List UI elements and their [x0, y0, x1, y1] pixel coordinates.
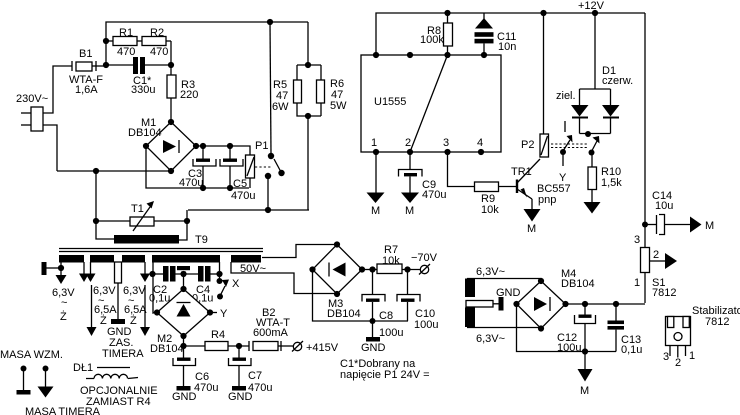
node R4 right	[236, 343, 242, 349]
svg-text:230V~: 230V~	[16, 93, 48, 105]
svg-text:U1555: U1555	[374, 96, 406, 108]
LED rail top	[580, 88, 611, 90]
switch contact fixed left	[564, 121, 566, 132]
svg-text:470u: 470u	[422, 189, 446, 201]
node M4 right	[562, 301, 568, 307]
svg-text:10k: 10k	[481, 204, 499, 216]
svg-text:10n: 10n	[498, 41, 516, 53]
node C8 top	[369, 266, 375, 272]
svg-text:T9: T9	[195, 234, 208, 246]
svg-text:2: 2	[653, 249, 659, 261]
node R7 right	[404, 266, 410, 272]
wire M3 right to R7	[362, 269, 377, 271]
svg-text:2: 2	[675, 357, 681, 369]
+12V right drop	[644, 13, 646, 225]
svg-text:7812: 7812	[705, 316, 729, 328]
thermistor T1	[96, 201, 187, 231]
svg-text:4: 4	[477, 137, 483, 149]
svg-text:+415V: +415V	[306, 342, 339, 354]
label Stabilizator 7812	[692, 305, 740, 328]
wire M2 bottom to R4 row	[183, 336, 185, 346]
svg-text:Y: Y	[220, 308, 228, 320]
ground GND under C8	[361, 321, 386, 354]
relay coil P1	[246, 140, 269, 188]
switch lever P1	[274, 159, 281, 172]
transformer 6,3V winding top	[465, 266, 505, 297]
node T1 right	[184, 218, 190, 224]
svg-text:DB104: DB104	[561, 278, 595, 290]
svg-text:DB104: DB104	[327, 308, 361, 320]
svg-text:C8: C8	[379, 310, 393, 322]
wire M1 left node down to minus rail	[146, 146, 249, 188]
node R1 branch	[103, 38, 109, 44]
svg-text:C7: C7	[248, 370, 262, 382]
arrow winding C right with long tail	[140, 262, 150, 336]
node pin 4	[478, 149, 484, 155]
svg-text:100u: 100u	[379, 327, 403, 339]
capacitor C8 100u	[362, 270, 403, 340]
node rail P2	[540, 10, 546, 16]
node M4 top	[538, 278, 544, 284]
wire winding D left down to M2	[153, 262, 157, 313]
node R5R6 top	[305, 62, 311, 68]
arrow winding B left with long tail	[86, 262, 97, 336]
wire M4 left down to M rail	[517, 304, 617, 352]
node C3 bottom	[200, 185, 206, 191]
bridge rectifier M2 DB104	[150, 289, 210, 355]
node C5 top	[227, 143, 233, 149]
polarized capacitor winding D tap	[177, 266, 190, 276]
node pin 1	[373, 149, 379, 155]
node M3 top	[334, 241, 340, 247]
switch lever Y	[559, 135, 573, 184]
output arrow pin 2	[650, 249, 678, 269]
ground M under pin 1	[367, 152, 385, 217]
transformer T9 primary winding	[114, 235, 179, 244]
node LED contact	[585, 131, 591, 137]
capacitor C6 470u	[173, 346, 218, 394]
node pin 2	[407, 149, 413, 155]
wire M4 right to S1	[566, 303, 646, 305]
svg-text:TR1: TR1	[511, 166, 532, 178]
svg-text:1,6A: 1,6A	[75, 84, 98, 96]
svg-text:pnp: pnp	[538, 194, 556, 206]
svg-text:R4: R4	[211, 329, 225, 341]
wire mains bottom rail	[57, 170, 171, 172]
wire M1 right node to P1 coil top	[196, 146, 250, 155]
wire winding bottom to M4	[467, 327, 541, 329]
node rail R8	[444, 10, 450, 16]
node M4 left	[513, 301, 519, 307]
node M3 bottom	[334, 291, 340, 297]
node U1555 top pin b	[407, 52, 413, 58]
ground GND under C7	[228, 386, 253, 403]
svg-text:100u: 100u	[414, 319, 438, 331]
LED D1 green	[556, 89, 589, 134]
svg-text:−70V: −70V	[411, 252, 438, 264]
inductor DL1 optional	[73, 362, 138, 379]
svg-text:M: M	[405, 205, 414, 217]
svg-text:P2: P2	[521, 139, 534, 151]
terminal bar winding A	[42, 262, 62, 275]
LED rail bottom	[580, 133, 611, 135]
fuse B2 WTA-T 600mA	[249, 307, 293, 351]
label 6,3V col1	[52, 287, 75, 323]
svg-text:2: 2	[405, 137, 411, 149]
svg-text:330u: 330u	[131, 84, 155, 96]
secondary winding E 50V	[231, 255, 261, 263]
node M2 bottom	[180, 333, 186, 339]
node cap row middle	[180, 271, 186, 277]
node M1 left	[143, 143, 149, 149]
wire cap row middle	[176, 273, 199, 275]
ground M under TR1	[524, 209, 541, 235]
arrow winding A left	[56, 262, 67, 284]
package TO220 drawing	[663, 317, 695, 370]
svg-text:MASA WZM.: MASA WZM.	[0, 349, 63, 361]
IC U1555	[361, 55, 501, 152]
svg-text:DŁ1: DŁ1	[73, 362, 93, 374]
node C12 top	[582, 301, 588, 307]
resistor R9 10k	[475, 182, 517, 216]
svg-text:1: 1	[689, 350, 695, 362]
svg-text:Ż: Ż	[100, 314, 107, 327]
svg-text:470: 470	[117, 46, 135, 58]
svg-text:X: X	[232, 278, 240, 290]
wire T1 right down to primary	[179, 221, 187, 240]
svg-text:R2: R2	[150, 27, 164, 39]
svg-text:0,1u: 0,1u	[621, 344, 642, 356]
node X point	[217, 278, 223, 284]
GND center tap M4	[466, 287, 521, 311]
secondary winding A	[59, 255, 84, 263]
secondary winding C	[122, 255, 145, 263]
node junction on mains rail	[93, 168, 99, 174]
node C13 top	[613, 301, 619, 307]
capacitor C1* 330u	[106, 57, 171, 96]
node M1 bottom on mains rail	[168, 168, 174, 174]
svg-text:100u: 100u	[557, 342, 581, 354]
resistor R10 1,5k	[588, 153, 622, 203]
wire M3 left down to minus rail	[313, 270, 409, 322]
wire left riser to top rail	[106, 22, 308, 65]
node C3 top	[200, 143, 206, 149]
stabilizer S1 7812	[634, 225, 676, 304]
resistor R5 47 6W	[272, 65, 321, 116]
label 6,3V 6,5A col3	[123, 285, 147, 327]
node cap row left	[149, 271, 155, 277]
wire R2 right down to node	[170, 41, 172, 65]
svg-text:ziel.: ziel.	[556, 90, 576, 102]
node M1 right	[193, 143, 199, 149]
svg-text:GND: GND	[496, 287, 521, 299]
bridge rectifier M1 DB104	[128, 117, 196, 171]
svg-text:1,5k: 1,5k	[601, 177, 622, 189]
node P1 fixed contact	[268, 153, 274, 159]
node U1555 top pin c	[444, 52, 450, 58]
svg-text:DB104: DB104	[150, 343, 184, 355]
capacitor C2 0,1u	[149, 266, 176, 305]
svg-text:~: ~	[61, 297, 67, 309]
relay coil P2	[521, 13, 549, 157]
node cap row right	[216, 271, 222, 277]
svg-text:DB104: DB104	[128, 127, 162, 139]
svg-text:600mA: 600mA	[253, 327, 289, 339]
switch lever right	[589, 136, 600, 156]
svg-text:Ż: Ż	[130, 314, 137, 327]
fuse B1 WTA-F 1,6A	[69, 48, 106, 96]
output terminal -70V	[411, 252, 438, 275]
svg-text:3: 3	[663, 351, 669, 363]
node U1555 top pin d	[481, 52, 487, 58]
mains plug 230V	[16, 93, 48, 131]
capacitor C9 470u	[399, 152, 447, 201]
node M4 bottom	[538, 325, 544, 331]
svg-text:6,3V~: 6,3V~	[476, 333, 505, 345]
capacitor C12 100u	[557, 304, 596, 354]
node M2 left	[154, 309, 160, 315]
svg-text:Ż: Ż	[60, 310, 67, 323]
node R4 row left	[180, 343, 186, 349]
svg-text:6,3V: 6,3V	[123, 285, 146, 297]
node R5R6 bottom	[305, 113, 311, 119]
svg-text:6W: 6W	[272, 101, 289, 113]
svg-text:10u: 10u	[655, 200, 673, 212]
wire plug bottom to mains rail	[43, 125, 57, 171]
wire T1 left branch	[96, 171, 114, 239]
wire pin 3 to R9	[448, 152, 475, 187]
svg-text:7812: 7812	[652, 287, 676, 299]
ground M right of C14	[690, 217, 714, 233]
dashed link P1 to contacts	[255, 166, 271, 168]
node U1555 top pin a	[373, 52, 379, 58]
wire M2 top stem	[183, 274, 185, 289]
resistor R3 220	[167, 65, 198, 122]
node C1 right	[168, 62, 174, 68]
resistor R2 470	[137, 27, 171, 58]
node aux rail	[265, 207, 271, 213]
svg-text:1: 1	[634, 277, 640, 289]
node T1 left	[93, 218, 99, 224]
node C14 branch	[642, 222, 648, 228]
LED D1 red	[602, 65, 633, 134]
svg-text:czerw.: czerw.	[602, 75, 633, 87]
secondary winding B	[90, 255, 114, 263]
node pin 3	[444, 149, 450, 155]
capacitor C4 0,1u	[192, 266, 220, 305]
svg-text:470u: 470u	[231, 190, 255, 202]
resistor R4	[184, 329, 250, 351]
resistor R8 100k	[420, 13, 453, 55]
capacitor C5 470u	[220, 146, 255, 202]
wire plug top to fuse	[43, 66, 72, 113]
node C12 bottom	[582, 348, 588, 354]
svg-text:B1: B1	[79, 48, 92, 60]
wire 50V bottom side to M3 bottom	[231, 262, 337, 294]
wire T1 right to aux rail	[186, 210, 188, 221]
transformer core lines	[59, 249, 263, 252]
svg-text:3: 3	[443, 137, 449, 149]
note C1 selection	[340, 358, 430, 381]
svg-text:220: 220	[180, 89, 198, 101]
wire winding top to M4	[467, 279, 541, 282]
svg-text:1: 1	[371, 137, 377, 149]
node M2 top	[180, 286, 186, 292]
node M3 left	[309, 266, 315, 272]
svg-text:M: M	[371, 205, 380, 217]
node fuse output	[103, 62, 109, 68]
wire aux rail from T1 junction to R5R6 drop	[188, 209, 309, 211]
Y stub at M2 right	[210, 308, 228, 320]
label OPCJONALNIE ZAMIAST R4	[80, 385, 158, 408]
capacitor C3 470u	[179, 146, 216, 189]
wire 50V top side to M3 top	[262, 245, 337, 258]
wire R5R6 riser	[307, 22, 309, 65]
node top rail P1 branch	[267, 19, 273, 25]
ground GND under C6	[172, 386, 197, 403]
svg-text:GND: GND	[228, 391, 253, 403]
resistor R7 10k	[377, 244, 420, 274]
transistor TR1 BC557 pnp	[511, 159, 571, 210]
capacitor C11 10n	[475, 13, 517, 55]
resistor R6 47 5W	[317, 65, 348, 116]
ground M under C12	[578, 352, 593, 398]
node M2 right	[207, 309, 213, 315]
svg-text:TIMERA: TIMERA	[102, 348, 144, 360]
wire winding D right drop	[219, 262, 221, 281]
node rail D1	[592, 10, 598, 16]
svg-text:10k: 10k	[382, 255, 400, 267]
LED feed wire	[594, 13, 596, 89]
svg-text:470u: 470u	[179, 177, 203, 189]
svg-text:470: 470	[150, 46, 168, 58]
node C8 bottom on minus rail	[370, 318, 376, 324]
X tie marker arrow	[217, 278, 240, 300]
svg-text:R1: R1	[119, 27, 133, 39]
svg-text:6,3V: 6,3V	[93, 285, 116, 297]
svg-text:GND: GND	[361, 342, 386, 354]
svg-text:M: M	[705, 220, 714, 232]
svg-text:T1: T1	[131, 203, 144, 215]
output terminal +415V	[292, 341, 339, 354]
bridge rectifier M3 DB104	[313, 245, 363, 321]
svg-text:Y: Y	[559, 172, 567, 184]
svg-text:100k: 100k	[420, 34, 444, 46]
terminal masa wzm	[17, 366, 31, 395]
svg-text:+12V: +12V	[578, 0, 605, 12]
svg-text:ZAMIAST R4: ZAMIAST R4	[86, 396, 151, 408]
svg-text:M: M	[527, 223, 536, 235]
wire R5R6 bottom to aux rail	[307, 116, 309, 210]
wire P1 moving contact down	[267, 176, 269, 210]
node C5 bottom	[227, 185, 233, 191]
capacitor C10 100u	[397, 270, 438, 332]
svg-text:C5: C5	[233, 178, 247, 190]
svg-text:GND: GND	[172, 391, 197, 403]
node P1 moving contact	[265, 173, 271, 179]
terminal masa timera arrow	[38, 366, 54, 398]
svg-text:P1: P1	[255, 140, 268, 152]
+12V top rail	[376, 0, 645, 55]
node M3 right	[359, 266, 365, 272]
label 6,3V 6,5A col2	[93, 285, 117, 327]
node M1 top	[168, 119, 174, 125]
svg-text:5W: 5W	[330, 100, 347, 112]
secondary winding D	[152, 255, 220, 263]
bridge rectifier M4 DB104	[517, 268, 595, 329]
svg-text:6,3V~: 6,3V~	[476, 266, 505, 278]
ground M under C9	[401, 193, 419, 218]
capacitor C13 0,1u	[608, 304, 643, 356]
svg-text:470u: 470u	[194, 382, 218, 394]
dashed link P2 to contacts	[551, 144, 588, 148]
node winding A left	[58, 265, 64, 271]
resistor R1 470	[106, 27, 137, 58]
svg-text:napięcie P1 24V =: napięcie P1 24V =	[340, 369, 430, 381]
ground M under R10	[584, 202, 601, 214]
svg-text:M: M	[580, 385, 589, 397]
GND tap ZAS.TIMERA	[102, 262, 144, 360]
wire top rail branch down to P1 contact	[270, 22, 271, 154]
arrow winding A right	[79, 262, 89, 282]
capacitor C14 10u	[645, 190, 690, 235]
capacitor C7 470u	[229, 346, 273, 394]
transformer 6,3V winding bottom	[465, 308, 505, 346]
svg-text:3: 3	[634, 234, 640, 246]
